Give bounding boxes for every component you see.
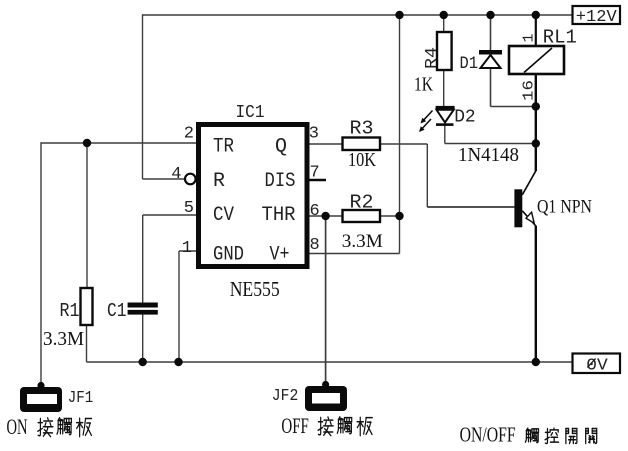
svg-text:+12V: +12V — [576, 8, 618, 27]
svg-text:THR: THR — [262, 204, 296, 227]
svg-text:1K: 1K — [414, 74, 433, 96]
svg-text:OFF: OFF — [281, 413, 309, 438]
svg-text:JF1: JF1 — [68, 389, 94, 408]
svg-text:3.3M: 3.3M — [43, 328, 84, 350]
svg-text:10K: 10K — [348, 149, 376, 171]
svg-text:8: 8 — [310, 236, 320, 255]
svg-text:4: 4 — [171, 165, 181, 184]
svg-text:C1: C1 — [107, 300, 127, 322]
svg-text:GND: GND — [213, 244, 244, 267]
svg-text:7: 7 — [310, 164, 320, 183]
svg-text:V+: V+ — [270, 244, 290, 267]
svg-text:R3: R3 — [350, 118, 374, 140]
svg-text:JF2: JF2 — [272, 387, 299, 406]
svg-text:16: 16 — [521, 80, 538, 101]
svg-text:3: 3 — [309, 125, 319, 144]
svg-text:6: 6 — [310, 202, 320, 221]
svg-text:ON/OFF: ON/OFF — [460, 423, 516, 447]
svg-text:5: 5 — [184, 199, 194, 218]
svg-text:D1: D1 — [460, 54, 479, 74]
svg-text:Q1 NPN: Q1 NPN — [537, 197, 592, 218]
svg-text:1N4148: 1N4148 — [458, 144, 519, 166]
svg-text:1: 1 — [182, 239, 192, 258]
svg-text:IC1: IC1 — [236, 103, 265, 123]
svg-text:DIS: DIS — [265, 170, 296, 193]
svg-text:NE555: NE555 — [230, 277, 280, 301]
svg-text:R2: R2 — [350, 192, 374, 214]
svg-text:R: R — [213, 170, 225, 193]
svg-text:Q: Q — [275, 136, 287, 159]
svg-text:TR: TR — [213, 136, 234, 159]
svg-text:2: 2 — [184, 125, 194, 144]
svg-text:3.3M: 3.3M — [342, 231, 383, 252]
svg-text:R1: R1 — [60, 300, 80, 322]
svg-text:CV: CV — [213, 204, 234, 227]
svg-text:ON: ON — [7, 414, 28, 439]
svg-text:RL1: RL1 — [543, 27, 577, 49]
svg-text:D2: D2 — [454, 107, 476, 128]
svg-text:1: 1 — [521, 33, 538, 42]
svg-text:R4: R4 — [423, 47, 442, 69]
